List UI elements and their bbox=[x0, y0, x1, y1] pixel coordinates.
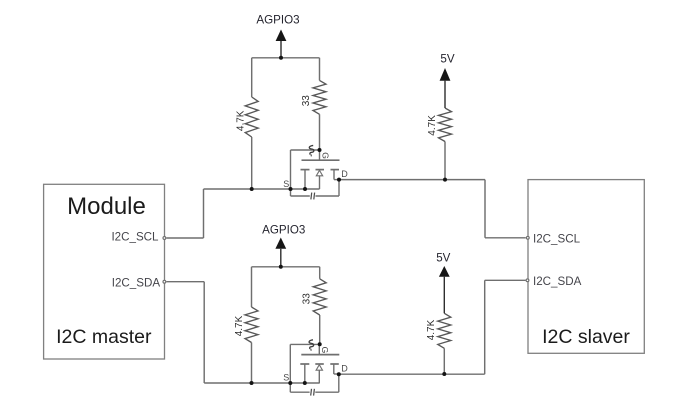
svg-text:I2C master: I2C master bbox=[56, 326, 152, 348]
svg-text:AGPIO3: AGPIO3 bbox=[256, 13, 299, 26]
svg-text:S: S bbox=[283, 179, 289, 189]
svg-text:I2C_SCL: I2C_SCL bbox=[533, 232, 581, 245]
svg-text:I2C_SDA: I2C_SDA bbox=[112, 276, 161, 289]
svg-text:33: 33 bbox=[301, 95, 312, 107]
svg-text:4.7K: 4.7K bbox=[427, 115, 438, 136]
svg-text:33: 33 bbox=[302, 293, 313, 305]
svg-text:D: D bbox=[341, 169, 348, 179]
svg-text:5V: 5V bbox=[436, 251, 450, 264]
svg-text:D: D bbox=[341, 363, 348, 373]
svg-text:5V: 5V bbox=[440, 53, 454, 66]
svg-text:4.7K: 4.7K bbox=[235, 110, 246, 131]
svg-text:4.7K: 4.7K bbox=[426, 319, 437, 340]
svg-text:G: G bbox=[320, 152, 330, 159]
svg-text:G: G bbox=[320, 347, 330, 354]
svg-text:S: S bbox=[283, 373, 289, 383]
svg-text:I2C slaver: I2C slaver bbox=[542, 326, 630, 348]
svg-text:Module: Module bbox=[67, 193, 146, 220]
svg-text:AGPIO3: AGPIO3 bbox=[262, 224, 305, 237]
svg-text:I2C_SCL: I2C_SCL bbox=[111, 231, 159, 244]
svg-text:4.7K: 4.7K bbox=[234, 315, 245, 336]
svg-text:I2C_SDA: I2C_SDA bbox=[533, 275, 582, 288]
